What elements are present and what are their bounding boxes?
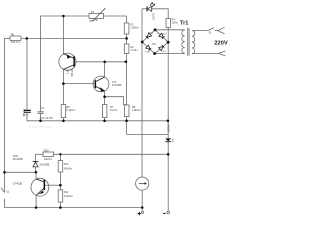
resistor R8 (feedback) [124,105,129,117]
svg-text:R6: R6 [11,32,15,36]
meter PA1 circle [136,177,149,190]
plug prong bottom [219,51,226,56]
wire secondary bottom [192,52,219,54]
plug prong top [218,27,225,34]
svg-text:VD2: VD2 [162,33,167,35]
wire left rail bottom segment [5,199,143,208]
transistor VT2 emitter arrowhead [100,87,105,91]
svg-text:R10: R10 [44,149,49,153]
svg-text:100m: 100m [23,114,29,116]
transistor VT1 emitter lead [62,16,64,54]
bridge diode TL [146,33,152,39]
bridge edge TR [155,30,168,42]
bridge diode BR [159,45,165,51]
wire y154.3 (VD6/R10 row) [36,153,44,155]
resistor R4 [166,19,171,28]
svg-text:1 kOm: 1 kOm [131,49,138,52]
svg-text:C2: C2 [41,106,45,110]
wire left long horizontal y38.4 [5,37,11,39]
wire emitter branch to R8 [105,97,127,105]
bridge edge BR [155,42,169,53]
svg-text:R1: R1 [91,10,95,14]
svg-text:KD202: KD202 [166,124,170,132]
thermistor diagonal arrow [90,8,106,21]
LED arrows [150,3,155,7]
bridge diode BL [146,45,152,51]
svg-text:5,1kOm: 5,1kOm [66,108,75,112]
wire VT1 collector down [62,69,64,104]
wire R7 to rail [104,118,106,121]
wire R2 top lead [126,16,128,23]
resistor R6 (left, 810 Om) [10,36,21,41]
svg-text:VD4: VD4 [161,51,166,53]
svg-text:VT1: VT1 [66,69,70,74]
terminal plus circle [142,211,144,213]
plus sign [138,212,141,215]
wire top rail y16 [40,15,126,17]
transistor VT1 circle [59,53,76,70]
wire secondary top to switch [192,30,208,32]
svg-text:810 Om: 810 Om [11,40,20,44]
svg-text:VD3: VD3 [145,52,150,54]
svg-text:0,5 mk 5,1kOm 100 mk: 0,5 mk 5,1kOm 100 mk [29,127,53,129]
svg-text:D9: D9 [152,42,156,46]
transistor VT1 base bar [73,56,75,67]
wire bridge bottom to transformer y53.6 [155,53,185,55]
wire x168 main vertical [167,27,169,138]
wire LED line x142 [141,9,143,178]
svg-text:R11: R11 [64,190,69,194]
wire R8 to rail [126,117,128,121]
transistor VT2 base bar [95,80,97,88]
wire x40.5 branch (thermistor node down) [39,16,41,112]
terminal minus circle [167,211,170,214]
wire R12 leads [59,154,61,160]
wire VT3 collector [35,172,37,179]
svg-text:VD5: VD5 [171,138,173,143]
wire C1 bottom to rail [27,112,168,120]
wire VT3 base to R12/R11 node [45,184,60,186]
wire VD6 to y172.3 node [35,167,37,172]
wire meter to bottom rail [141,190,143,211]
wire VT2 collector up [104,62,106,77]
switch S1 [208,28,214,31]
svg-text:KD105B: KD105B [13,157,23,161]
transistor VT2 circle [93,76,109,92]
capacitor C2 [38,111,44,113]
LED wire left [142,8,147,10]
svg-text:S1: S1 [209,33,213,35]
svg-text:VD1: VD1 [149,32,154,34]
svg-text:10kOm: 10kOm [44,157,52,161]
svg-text:1kOm: 1kOm [172,21,178,24]
svg-text:51 Om: 51 Om [110,108,118,112]
svg-text:Tr1: Tr1 [180,21,188,27]
transformer core [187,28,189,56]
wire VD5 down to minus terminal [167,142,169,212]
svg-text:KT361: KT361 [70,69,74,77]
transformer secondary right winding [192,31,195,54]
meter arrow [139,183,146,185]
transformer primary left winding [182,30,185,53]
LED triangle [148,6,152,11]
svg-text:1,8kOm: 1,8kOm [131,27,139,30]
wire R3 bottom to y61.8 node and down [126,54,128,106]
LED bar [147,6,148,11]
svg-text:220V: 220V [214,41,228,47]
svg-text:1,8kOm: 1,8kOm [132,108,141,112]
minus sign [163,212,166,214]
wire VT2 emitter down [104,91,106,105]
resistor R2 [124,23,129,34]
resistor R11 [58,190,63,202]
transistor VT2 internals [96,77,105,91]
svg-text:GT402B: GT402B [13,181,23,185]
transistor VT3 internals [36,179,44,195]
LED wire right and down to R4 [152,9,169,19]
transistor VT1 emitter arrowhead [67,54,72,59]
wire rail to VD5 anode y134.4 [127,121,169,135]
capacitor C1 [24,111,31,113]
diode VD5 (on x168) [165,138,171,141]
wire x27 branch down to C1 [26,38,28,109]
bridge diode TR [159,33,165,39]
wire left rail x4.5 [4,38,6,192]
switch S2 lever [1,188,4,193]
svg-text:AL307: AL307 [151,13,155,21]
transistor VT3 emitter arrowhead [39,190,44,194]
svg-text:KT315B: KT315B [112,83,122,87]
wire y172.3 [5,171,36,173]
wire VT3 emitter down [35,195,37,207]
thermistor R1 body [89,14,104,19]
wire corner to VD6 [35,154,37,161]
transistor VT1 internals [63,54,74,70]
svg-text:43kOm: 43kOm [64,166,72,170]
resistor R12 [58,161,63,172]
transistor VT3 circle [31,178,49,196]
wire VT1 base to right y61.8 [75,61,126,63]
resistor R5 (VT1 load) [61,105,65,118]
bridge edge BL [142,42,154,54]
svg-text:VD6: VD6 [13,154,19,158]
transistor VT3 base bar [44,180,46,191]
svg-text:0,5 mk 50v: 0,5 mk 50v [40,116,53,120]
diode VD6 [33,161,39,163]
svg-text:VT2: VT2 [112,80,117,84]
resistor R3 [124,44,129,54]
bridge edge TL [142,30,155,42]
svg-text:S2: S2 [6,191,10,193]
wire C2 bottom [40,113,42,121]
wire bridge top to transformer y29.8 [155,29,185,31]
resistor R7 (emitter) [102,105,107,118]
wire R2-R3 [126,34,128,44]
svg-text:KD105B: KD105B [40,163,50,167]
svg-text:R12: R12 [64,162,69,166]
wire VT1 collector to VT2 base y83.6 [63,83,94,85]
svg-text:7,5k: 7,5k [93,18,99,22]
wire R5 to rail [62,118,64,121]
resistor R10 [43,152,54,157]
wire R11 bottom [59,202,61,207]
svg-text:2,2kOm: 2,2kOm [64,194,73,198]
